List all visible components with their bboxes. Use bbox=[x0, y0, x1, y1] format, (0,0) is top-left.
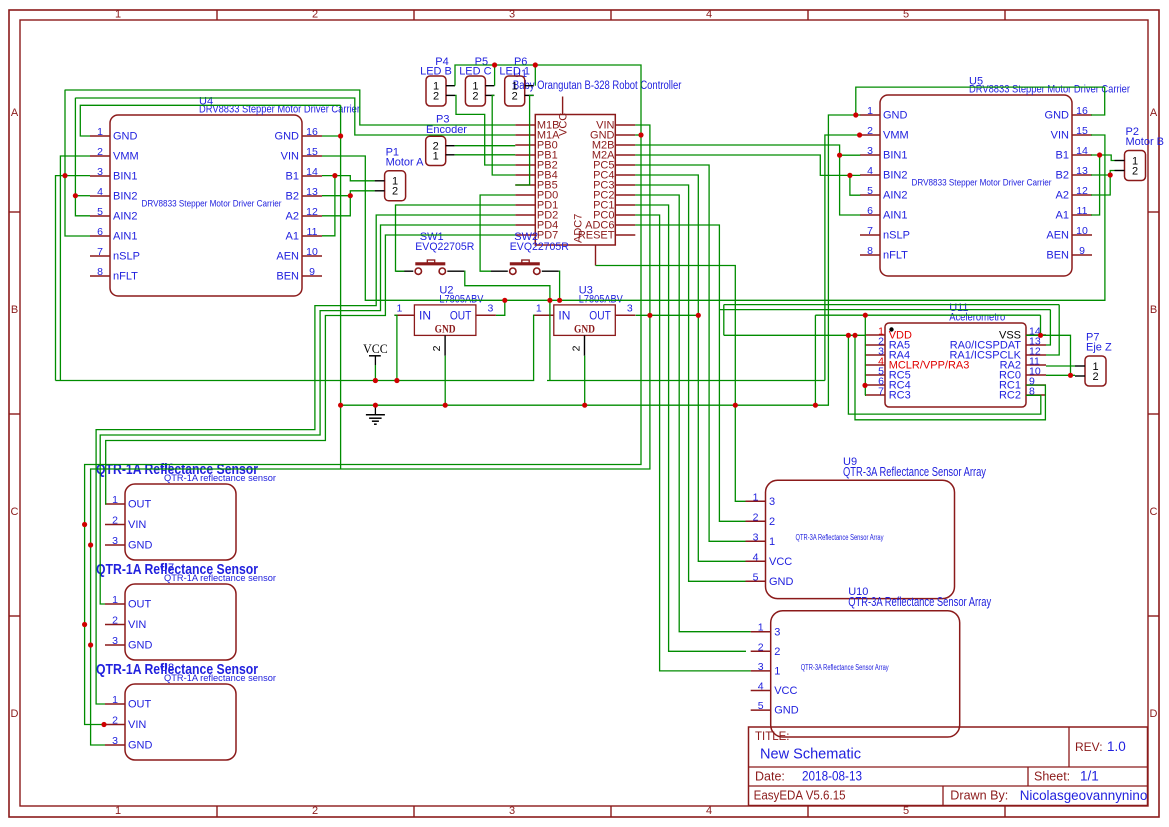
svg-text:5: 5 bbox=[867, 185, 873, 197]
svg-text:EasyEDA V5.6.15: EasyEDA V5.6.15 bbox=[754, 788, 846, 802]
svg-text:LED C: LED C bbox=[459, 65, 491, 77]
wire P3.1 to PB1 bbox=[455, 154, 516, 156]
svg-text:2: 2 bbox=[769, 516, 775, 528]
svg-text:1: 1 bbox=[115, 805, 121, 817]
svg-text:Nicolasgeovannynino: Nicolasgeovannynino bbox=[1020, 788, 1148, 803]
wire U5 GND1 top loop bbox=[856, 87, 1105, 115]
svg-text:Encoder: Encoder bbox=[426, 124, 467, 136]
wire U1 GND stub bbox=[635, 134, 641, 136]
svg-text:10: 10 bbox=[1076, 225, 1088, 237]
svg-text:5: 5 bbox=[903, 805, 909, 817]
regulator U2 L7805ABV bbox=[394, 284, 496, 355]
driver U5 DRV8833 Stepper Motor Driver Carrier bbox=[860, 75, 1130, 276]
wire U5 B1 to P2.1 bbox=[1091, 155, 1115, 161]
wire U4 VIN15 to VIN rail bbox=[322, 135, 1105, 300]
junction at 494.6,65 bbox=[492, 62, 497, 67]
wire GND column 340 bbox=[340, 105, 342, 469]
ground symbol bbox=[366, 405, 385, 424]
svg-text:DRV8833 Stepper Motor Driver C: DRV8833 Stepper Motor Driver Carrier bbox=[969, 84, 1130, 96]
svg-text:VIN: VIN bbox=[281, 151, 299, 163]
svg-text:D: D bbox=[1150, 708, 1158, 720]
wire VSS rail segment bbox=[547, 380, 825, 382]
svg-text:QTR-3A Reflectance Sensor Arra: QTR-3A Reflectance Sensor Array bbox=[796, 533, 884, 542]
svg-text:3: 3 bbox=[509, 9, 515, 21]
U1 VCC top pin bbox=[562, 97, 564, 115]
svg-text:A2: A2 bbox=[286, 211, 299, 223]
wire L3 right drop to RA0 bbox=[1046, 310, 1050, 345]
connector P6 LED 1 bbox=[499, 56, 533, 106]
junction at 1070.5,375.3 bbox=[1068, 373, 1073, 378]
svg-text:GND: GND bbox=[774, 705, 799, 717]
svg-text:3: 3 bbox=[774, 626, 780, 638]
connector P5 LED C bbox=[459, 56, 494, 106]
svg-text:A2: A2 bbox=[1056, 190, 1069, 202]
wire U4 BIN2 stub bbox=[75, 195, 90, 197]
svg-text:2: 2 bbox=[392, 186, 398, 198]
wire U5 B2 to P2.2 bbox=[1091, 171, 1115, 176]
svg-text:RC3: RC3 bbox=[889, 389, 911, 401]
junction at 350.3,195.7 bbox=[348, 193, 353, 198]
title block bbox=[749, 727, 1148, 806]
svg-text:2: 2 bbox=[433, 90, 439, 102]
connector P1 Motor A bbox=[375, 146, 425, 201]
wire PD4 staircase bbox=[100, 225, 515, 604]
wire U1 PC3 to U9.5 bbox=[635, 185, 745, 581]
sensor U6 QTR-1A Reflectance Sensor bbox=[96, 461, 276, 560]
svg-text:2: 2 bbox=[1132, 165, 1138, 177]
svg-text:8: 8 bbox=[97, 266, 103, 278]
wire P6.2 to PB5 bbox=[515, 95, 533, 185]
svg-text:AIN1: AIN1 bbox=[883, 210, 907, 222]
svg-text:5: 5 bbox=[753, 571, 759, 583]
svg-text:OUT: OUT bbox=[128, 499, 152, 511]
svg-text:2: 2 bbox=[312, 9, 318, 21]
switch SW1 EVQ22705R bbox=[396, 231, 474, 274]
wire L4 left drop to GND rail bbox=[814, 315, 816, 405]
svg-text:B: B bbox=[1150, 304, 1157, 316]
svg-text:2: 2 bbox=[753, 511, 759, 523]
wire U4 B1-A1 link bbox=[322, 176, 335, 236]
wire U4 BIN1 drop bbox=[56, 176, 91, 381]
svg-text:4: 4 bbox=[758, 681, 764, 693]
wire U1 M2B to U5 BIN1 bbox=[635, 145, 860, 155]
svg-text:4: 4 bbox=[706, 9, 712, 21]
wire U5 VMM riser bbox=[825, 135, 860, 381]
svg-text:13: 13 bbox=[306, 186, 318, 198]
svg-text:1: 1 bbox=[769, 536, 775, 548]
svg-text:2018-08-13: 2018-08-13 bbox=[802, 769, 862, 784]
svg-text:7: 7 bbox=[867, 225, 873, 237]
svg-text:2: 2 bbox=[1092, 371, 1098, 383]
wire U1 PC2 to U10.1 bbox=[635, 195, 750, 632]
svg-text:1: 1 bbox=[753, 491, 759, 503]
svg-text:Drawn By:: Drawn By: bbox=[950, 788, 1008, 802]
wire L2 drop to VDD bbox=[723, 305, 725, 336]
wire U1 ADC6 to U9.2 bbox=[635, 225, 745, 521]
wire U2 GND drop bbox=[444, 356, 446, 406]
wire SW2 right drop bbox=[558, 271, 561, 300]
junction at 340.6,405.2 bbox=[338, 403, 343, 408]
wire U1 PC1 to U10.2 bbox=[635, 205, 746, 651]
svg-text:1.0: 1.0 bbox=[1107, 739, 1126, 754]
svg-text:B1: B1 bbox=[1056, 150, 1069, 162]
wire L4 drop to RC4 and RC3 bbox=[864, 315, 866, 395]
svg-text:2: 2 bbox=[774, 646, 780, 658]
connector P3 Encoder bbox=[426, 114, 468, 166]
svg-text:nFLT: nFLT bbox=[883, 250, 908, 262]
IC U11 Acelerometro bbox=[865, 302, 1046, 407]
svg-text:1: 1 bbox=[396, 303, 402, 315]
svg-text:1: 1 bbox=[433, 151, 439, 163]
svg-text:5: 5 bbox=[903, 9, 909, 21]
svg-text:GND: GND bbox=[574, 324, 595, 336]
svg-text:2: 2 bbox=[312, 805, 318, 817]
wire VDD row bbox=[724, 334, 865, 336]
svg-text:EVQ22705R: EVQ22705R bbox=[415, 241, 474, 253]
svg-text:Baby Orangutan B-328 Robot Con: Baby Orangutan B-328 Robot Controller bbox=[513, 80, 682, 92]
wire U1 PC4 to U9.4 bbox=[635, 175, 745, 561]
svg-text:VCC: VCC bbox=[558, 113, 570, 136]
sensor array U9 QTR-3A Reflectance Sensor Array bbox=[746, 456, 987, 599]
svg-text:2: 2 bbox=[571, 345, 583, 351]
wire U5 BIN2-AIN2 link bbox=[850, 175, 860, 195]
svg-text:16: 16 bbox=[1076, 105, 1088, 117]
svg-text:1/1: 1/1 bbox=[1080, 769, 1099, 784]
connector P2 Motor B bbox=[1115, 126, 1165, 181]
svg-text:A: A bbox=[1150, 107, 1158, 119]
junction at 1040.5,335.3 bbox=[1038, 333, 1043, 338]
junction at 90.6,645 bbox=[88, 642, 93, 647]
svg-text:1: 1 bbox=[774, 666, 780, 678]
junction at 849.9,175.4 bbox=[847, 173, 852, 178]
svg-text:OUT: OUT bbox=[589, 309, 611, 323]
svg-text:1: 1 bbox=[536, 303, 542, 315]
svg-text:QTR-1A reflectance sensor: QTR-1A reflectance sensor bbox=[164, 673, 276, 684]
svg-text:nSLP: nSLP bbox=[883, 230, 910, 242]
wire U4 AIN2 top line B bbox=[75, 98, 515, 135]
junction at 848.4,335.3 bbox=[846, 333, 851, 338]
svg-text:11: 11 bbox=[1077, 205, 1088, 217]
svg-text:IN: IN bbox=[558, 309, 570, 323]
svg-text:VIN: VIN bbox=[128, 619, 146, 631]
junction at 649.9,315.3 bbox=[647, 313, 652, 318]
svg-text:2: 2 bbox=[867, 125, 873, 137]
junction at 504.8,300.3 bbox=[502, 298, 507, 303]
junction at 855.8,115 bbox=[853, 112, 858, 117]
junction at 375.4,405.2 bbox=[373, 403, 378, 408]
svg-text:IN: IN bbox=[419, 309, 431, 323]
svg-text:L7805ABV: L7805ABV bbox=[579, 293, 624, 305]
svg-text:3: 3 bbox=[97, 166, 103, 178]
svg-text:1: 1 bbox=[115, 9, 121, 21]
svg-text:EVQ22705R: EVQ22705R bbox=[510, 241, 569, 253]
svg-text:14: 14 bbox=[306, 166, 318, 178]
wire U3 GND drop bbox=[584, 356, 586, 406]
switch SW2 EVQ22705R bbox=[491, 231, 569, 274]
svg-text:B: B bbox=[11, 304, 18, 316]
svg-text:3: 3 bbox=[509, 805, 515, 817]
svg-text:9: 9 bbox=[1079, 245, 1085, 257]
sensor U8 QTR-1A Reflectance Sensor bbox=[96, 661, 276, 760]
svg-text:VCC: VCC bbox=[769, 556, 792, 568]
wire U11 RA2 to P7.1 bbox=[1046, 365, 1075, 367]
svg-text:QTR-1A reflectance sensor: QTR-1A reflectance sensor bbox=[164, 473, 276, 484]
svg-text:4: 4 bbox=[97, 186, 103, 198]
junction at 839.6,155.2 bbox=[837, 153, 842, 158]
junction at 340.6,136 bbox=[338, 133, 343, 138]
svg-text:GND: GND bbox=[128, 540, 153, 552]
svg-text:2: 2 bbox=[758, 641, 764, 653]
svg-text:8: 8 bbox=[867, 245, 873, 257]
wire L4 line bbox=[815, 314, 1040, 316]
junction at 859.6,135 bbox=[857, 132, 862, 137]
svg-text:GND: GND bbox=[883, 110, 908, 122]
svg-text:nFLT: nFLT bbox=[113, 271, 138, 283]
connector P4 LED B bbox=[420, 56, 455, 106]
svg-text:16: 16 bbox=[306, 126, 318, 138]
svg-text:AEN: AEN bbox=[1046, 230, 1069, 242]
wire U5 B2-A2 link bbox=[1091, 175, 1110, 195]
svg-text:VIN: VIN bbox=[1051, 130, 1069, 142]
junction at 865.3,315.2 bbox=[863, 313, 868, 318]
wire U1 PC5 to U9.3 bbox=[635, 165, 745, 541]
junction at 1099.6,155 bbox=[1097, 152, 1102, 157]
svg-text:3: 3 bbox=[627, 303, 633, 315]
svg-text:4: 4 bbox=[706, 805, 712, 817]
controller U1 Baby Orangutan B-328 Robot Controller bbox=[513, 68, 682, 266]
svg-text:BEN: BEN bbox=[1046, 250, 1069, 262]
svg-text:Date:: Date: bbox=[755, 769, 785, 783]
wire SW1 right to VSS seg bbox=[464, 271, 550, 380]
wire U4 AIN1 top line A bbox=[65, 90, 515, 125]
svg-text:New Schematic: New Schematic bbox=[760, 746, 861, 763]
wire LED top wire + QTR column A bbox=[85, 65, 641, 725]
svg-text:nSLP: nSLP bbox=[113, 251, 140, 263]
junction at 641,135 bbox=[638, 132, 643, 137]
junction at 549.9,300.3 bbox=[547, 298, 552, 303]
junction at 375.4,380.5 bbox=[373, 378, 378, 383]
svg-text:2: 2 bbox=[97, 146, 103, 158]
svg-text:2: 2 bbox=[512, 90, 518, 102]
svg-text:RC2: RC2 bbox=[999, 389, 1021, 401]
svg-text:1: 1 bbox=[758, 622, 764, 634]
svg-text:QTR-1A reflectance sensor: QTR-1A reflectance sensor bbox=[164, 573, 276, 584]
svg-text:L7805ABV: L7805ABV bbox=[439, 293, 484, 305]
junction at 396.9,380.5 bbox=[394, 378, 399, 383]
junction at 104,724.5 bbox=[101, 722, 106, 727]
wire U4 GND1 to GND column bbox=[80, 105, 340, 136]
wire U5 B1-A1 link bbox=[1091, 155, 1100, 215]
svg-text:12: 12 bbox=[1076, 185, 1088, 197]
svg-text:D: D bbox=[11, 708, 19, 720]
wire P5.1 riser bbox=[494, 65, 496, 86]
svg-text:VIN: VIN bbox=[128, 519, 146, 531]
svg-text:3: 3 bbox=[112, 535, 118, 547]
wire U4 B2-A2 link bbox=[322, 196, 350, 216]
wire U1 VIN riser + QTR column B bbox=[91, 125, 650, 745]
sensor U7 QTR-1A Reflectance Sensor bbox=[96, 561, 276, 660]
junction at 855,335.3 bbox=[852, 333, 857, 338]
power flag VCC bbox=[363, 341, 388, 381]
svg-text:2: 2 bbox=[112, 715, 118, 727]
svg-text:2: 2 bbox=[112, 515, 118, 527]
svg-text:1: 1 bbox=[112, 494, 118, 506]
svg-text:A1: A1 bbox=[286, 231, 299, 243]
svg-text:VCC: VCC bbox=[363, 341, 388, 356]
svg-text:2: 2 bbox=[431, 345, 443, 351]
wire U4 GND16 bbox=[322, 135, 341, 137]
svg-text:BIN2: BIN2 bbox=[883, 170, 907, 182]
svg-text:VMM: VMM bbox=[113, 151, 139, 163]
svg-text:13: 13 bbox=[1076, 165, 1088, 177]
svg-text:GND: GND bbox=[275, 131, 300, 143]
svg-text:DRV8833 Stepper Motor Driver C: DRV8833 Stepper Motor Driver Carrier bbox=[912, 177, 1052, 188]
svg-text:15: 15 bbox=[1076, 125, 1088, 137]
svg-text:VCC: VCC bbox=[774, 685, 797, 697]
svg-text:10: 10 bbox=[306, 246, 318, 258]
svg-text:B2: B2 bbox=[1056, 170, 1069, 182]
junction at 84.6,524.5 bbox=[82, 522, 87, 527]
wire PD2 staircase bbox=[96, 215, 515, 704]
svg-text:11: 11 bbox=[307, 226, 318, 238]
svg-text:1: 1 bbox=[112, 694, 118, 706]
wire U4 B2 to P1.2 bbox=[322, 191, 375, 196]
svg-text:1: 1 bbox=[112, 594, 118, 606]
svg-text:GND: GND bbox=[128, 640, 153, 652]
svg-text:6: 6 bbox=[97, 226, 103, 238]
wire U1 bottom gnd to U9.1 bbox=[596, 266, 746, 502]
junction at 65,175.6 bbox=[62, 173, 67, 178]
svg-text:5: 5 bbox=[97, 206, 103, 218]
wire L2 right drop to RA1 bbox=[1046, 305, 1059, 355]
junction at 75.4,195.7 bbox=[73, 193, 78, 198]
svg-text:OUT: OUT bbox=[128, 699, 152, 711]
svg-text:AIN1: AIN1 bbox=[113, 231, 137, 243]
svg-text:REV:: REV: bbox=[1075, 740, 1103, 754]
svg-text:QTR-3A Reflectance Sensor Arra: QTR-3A Reflectance Sensor Array bbox=[843, 465, 987, 479]
wire U4 VMM to VCC rail bbox=[60, 156, 90, 381]
svg-text:4: 4 bbox=[753, 551, 759, 563]
svg-text:AIN2: AIN2 bbox=[113, 211, 137, 223]
svg-text:9: 9 bbox=[309, 266, 315, 278]
regulator U3 L7805ABV bbox=[534, 284, 636, 355]
svg-text:3: 3 bbox=[769, 496, 775, 508]
wire U4 BIN1-AIN1 link bbox=[65, 90, 90, 236]
svg-text:LED 1: LED 1 bbox=[499, 65, 530, 77]
wire P5.2 to PB4 bbox=[492, 95, 515, 175]
wire U5 BIN1-AIN1 link bbox=[840, 155, 861, 215]
svg-text:GND: GND bbox=[435, 324, 456, 336]
junction at 584.7,405.2 bbox=[582, 403, 587, 408]
svg-text:4: 4 bbox=[867, 165, 873, 177]
junction at 445.2,405.2 bbox=[443, 403, 448, 408]
svg-text:3: 3 bbox=[112, 635, 118, 647]
svg-text:AEN: AEN bbox=[276, 251, 299, 263]
svg-text:1: 1 bbox=[867, 105, 873, 117]
sensor array U10 QTR-3A Reflectance Sensor Array bbox=[751, 586, 992, 737]
svg-text:A1: A1 bbox=[1056, 210, 1069, 222]
svg-text:3: 3 bbox=[487, 303, 493, 315]
svg-text:BEN: BEN bbox=[276, 271, 299, 283]
svg-text:15: 15 bbox=[306, 146, 318, 158]
svg-text:3: 3 bbox=[867, 145, 873, 157]
junction at 735.3,405.2 bbox=[733, 403, 738, 408]
svg-text:14: 14 bbox=[1076, 145, 1088, 157]
wire U4 B1 to P1.1 bbox=[322, 176, 375, 181]
svg-text:Motor A: Motor A bbox=[386, 156, 425, 168]
svg-text:2: 2 bbox=[112, 615, 118, 627]
wire P3.2 to PB0 bbox=[455, 145, 516, 147]
wire P4.2 to PB2 bbox=[455, 95, 515, 165]
svg-text:3: 3 bbox=[753, 531, 759, 543]
wire VDD loop1 to RC2 bbox=[848, 335, 1040, 414]
junction at 815.4,405.2 bbox=[813, 403, 818, 408]
wire L3 line bbox=[719, 309, 1050, 311]
svg-text:OUT: OUT bbox=[128, 599, 152, 611]
wire U1 M2A to U5 BIN2 bbox=[635, 155, 860, 175]
svg-text:Motor B: Motor B bbox=[1126, 136, 1165, 148]
wire VDD loop2 to RC1 bbox=[855, 335, 1045, 420]
wire PD0 to SW2 bbox=[480, 195, 515, 271]
wire U11 VSS to P7.2 bbox=[1046, 335, 1075, 375]
junction at 535.3,65 bbox=[533, 62, 538, 67]
wire U11 RC0 wire bbox=[1046, 374, 1071, 376]
junction at 334.9,175.6 bbox=[332, 173, 337, 178]
wire L4 right drop to VSS bbox=[1040, 315, 1042, 335]
svg-text:DRV8833 Stepper Motor Driver C: DRV8833 Stepper Motor Driver Carrier bbox=[142, 198, 282, 209]
svg-text:BIN1: BIN1 bbox=[113, 171, 137, 183]
wire PD7 staircase bbox=[105, 235, 515, 504]
svg-text:7: 7 bbox=[878, 386, 884, 398]
svg-text:Eje Z: Eje Z bbox=[1086, 342, 1112, 354]
svg-text:5: 5 bbox=[758, 700, 764, 712]
svg-text:OUT: OUT bbox=[450, 309, 472, 323]
svg-text:VMM: VMM bbox=[883, 130, 909, 142]
wire VSS row bbox=[1026, 334, 1046, 336]
wire U2 OUT riser bbox=[496, 300, 505, 315]
svg-text:A: A bbox=[11, 107, 19, 119]
wire U2 IN riser bbox=[394, 315, 397, 380]
svg-text:GND: GND bbox=[769, 576, 794, 588]
svg-text:GND: GND bbox=[1045, 110, 1070, 122]
svg-text:3: 3 bbox=[758, 661, 764, 673]
svg-text:6: 6 bbox=[867, 205, 873, 217]
svg-text:QTR-3A Reflectance Sensor Arra: QTR-3A Reflectance Sensor Array bbox=[801, 663, 889, 672]
svg-text:ADC7: ADC7 bbox=[573, 214, 585, 243]
svg-text:BIN2: BIN2 bbox=[113, 191, 137, 203]
svg-text:2: 2 bbox=[472, 90, 478, 102]
svg-text:C: C bbox=[1150, 506, 1158, 518]
driver U4 DRV8833 Stepper Motor Driver Carrier bbox=[90, 95, 360, 296]
svg-text:GND: GND bbox=[113, 131, 138, 143]
wire U1 PC0 to U10.3 bbox=[635, 215, 750, 671]
U1 GND bottom pin bbox=[595, 245, 597, 266]
svg-text:BIN1: BIN1 bbox=[883, 150, 907, 162]
junction at 90.6,545 bbox=[88, 542, 93, 547]
wire U3 OUT wire bbox=[636, 314, 699, 316]
junction at 1110.2,175 bbox=[1108, 172, 1113, 177]
wire L2 VDD line bbox=[724, 304, 1059, 306]
svg-text:QTR-3A Reflectance Sensor Arra: QTR-3A Reflectance Sensor Array bbox=[848, 595, 992, 609]
svg-text:AIN2: AIN2 bbox=[883, 190, 907, 202]
svg-text:B2: B2 bbox=[286, 191, 299, 203]
svg-text:Sheet:: Sheet: bbox=[1034, 769, 1070, 783]
wire GND rail bbox=[341, 115, 861, 405]
wire U4 AIN2-BIN2 link bbox=[75, 98, 90, 216]
junction at 559.6,300.3 bbox=[557, 298, 562, 303]
wire PD1 to SW1 bbox=[396, 205, 516, 271]
svg-text:3: 3 bbox=[112, 735, 118, 747]
